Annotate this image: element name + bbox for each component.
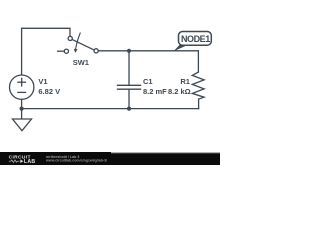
logo squiggle (9, 160, 20, 163)
node junction ground (20, 107, 24, 111)
svg-text:NODE1: NODE1 (181, 34, 210, 44)
node NODE1 flag (174, 32, 212, 52)
watermark bar (0, 152, 220, 165)
svg-text:6.82 V: 6.82 V (38, 87, 60, 96)
switch SW1 (58, 33, 99, 53)
resistor R1 zigzag (192, 72, 204, 99)
actuator arrow (76, 33, 81, 49)
svg-text:www.circuitlab.com/c/ngzw6g/la: www.circuitlab.com/c/ngzw6g/lab-3/ (45, 159, 107, 163)
terminal right common pin 3 (94, 49, 98, 53)
ground (13, 119, 32, 131)
plate bottom (118, 88, 141, 90)
plus sign (18, 81, 26, 83)
svg-text:8.2 mF: 8.2 mF (143, 87, 167, 96)
node junction C1 bottom (127, 107, 131, 111)
wire R1 bottom lead (198, 99, 200, 109)
svg-text:LAB: LAB (24, 159, 36, 165)
wire V1 bottom lead (21, 99, 23, 118)
terminal top-left pin 1 (68, 36, 72, 40)
logo arrow (20, 159, 23, 163)
svg-text:8.2 kΩ: 8.2 kΩ (168, 87, 191, 96)
svg-text:V1: V1 (38, 77, 47, 86)
capacitor C1 (118, 51, 141, 109)
minus sign (18, 91, 26, 93)
plate top (118, 84, 141, 86)
wire bottom rail (22, 108, 199, 110)
stub wire unconnected throw (58, 50, 65, 52)
switch blade (72, 40, 94, 51)
voltage source V1 (10, 75, 34, 99)
wire C1 bottom lead (128, 90, 130, 109)
node junction C1 top (127, 49, 131, 53)
svg-text:SW1: SW1 (73, 58, 89, 67)
svg-text:R1: R1 (180, 77, 190, 86)
wire left rail V1 top to corner (22, 28, 70, 75)
terminal bottom-left pin 2 (64, 49, 68, 53)
svg-text:C1: C1 (143, 77, 153, 86)
wire C1 top lead (128, 51, 130, 85)
wire top rail (98, 51, 198, 72)
